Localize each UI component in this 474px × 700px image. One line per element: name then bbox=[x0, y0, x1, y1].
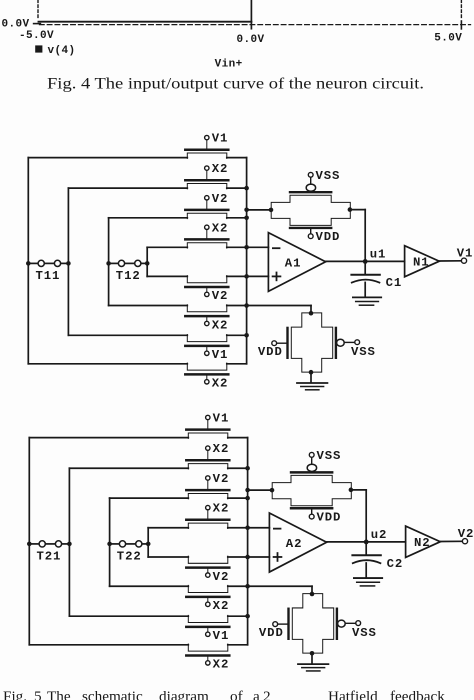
inverter N1 bbox=[405, 246, 440, 277]
junction at lower gate top bbox=[310, 592, 315, 597]
svg-text:X2: X2 bbox=[212, 377, 229, 391]
node u2 bbox=[364, 539, 369, 544]
TG1b left gate bar bbox=[286, 328, 288, 358]
TG2a bottom gate bar bbox=[291, 507, 332, 509]
junction at TG1a right terminal bbox=[348, 207, 353, 212]
transistor M21 (V1) bbox=[186, 415, 229, 438]
junction on rail 4 at T row bbox=[145, 261, 150, 266]
wire: row 4 left lead of neuron 2 bbox=[148, 527, 188, 529]
svg-text:N2: N2 bbox=[414, 536, 431, 550]
svg-text:X2: X2 bbox=[213, 502, 230, 516]
transistor M17 (V1) bbox=[185, 335, 228, 356]
svg-text:X2: X2 bbox=[212, 221, 229, 235]
VDD pin of TG1a bbox=[310, 228, 312, 234]
junction on summing rail bbox=[245, 496, 250, 501]
junction on rail 2 at T row bbox=[66, 261, 71, 266]
svg-text:VDD: VDD bbox=[317, 511, 342, 525]
op-amp minus input mark bbox=[274, 528, 281, 530]
wire: left feedback rail 3 of neuron 2 bbox=[109, 498, 111, 586]
wire: left feedback rail 2 of neuron 2 bbox=[68, 468, 70, 616]
capacitor C2 bbox=[352, 554, 380, 556]
TG1a top gate bar bbox=[290, 191, 331, 193]
svg-text:A1: A1 bbox=[285, 256, 302, 270]
wire: row 6 lead down into lower gate bbox=[311, 586, 313, 594]
svg-text:-5.0V: -5.0V bbox=[19, 30, 54, 42]
graph trace: output low segment bbox=[39, 21, 252, 23]
svg-text:V2: V2 bbox=[212, 289, 229, 303]
VDD pin of TG1b bbox=[277, 342, 288, 344]
junction at lower gate top bbox=[309, 311, 314, 316]
ground below TG2b bbox=[298, 663, 328, 665]
terminal T12 (input pair) bbox=[109, 262, 119, 264]
svg-text:V1: V1 bbox=[212, 132, 229, 146]
wire: row 6 right lead of neuron 2 bbox=[228, 585, 312, 587]
wire: row 5 left lead of neuron 1 bbox=[147, 275, 187, 277]
junction on summing rail bbox=[244, 216, 249, 221]
wire: row 5 left lead of neuron 2 bbox=[148, 556, 188, 558]
svg-text:VDD: VDD bbox=[259, 626, 284, 640]
svg-text:u1: u1 bbox=[370, 248, 387, 262]
wire: capacitor to ground bbox=[365, 563, 367, 577]
junction on summing rail bbox=[245, 584, 250, 589]
wire: row 2 left lead of neuron 1 bbox=[68, 187, 187, 189]
VDD pin of TG2a bbox=[311, 508, 313, 514]
svg-text:N1: N1 bbox=[413, 256, 430, 270]
wire: left feedback rail 3 of neuron 1 bbox=[108, 218, 110, 306]
wire: row 6 left lead of neuron 1 bbox=[109, 305, 188, 307]
transistor M13 (V2) bbox=[185, 196, 228, 219]
wire: row 1 left lead of neuron 2 bbox=[29, 437, 188, 439]
junction on rail 1 at T row bbox=[27, 542, 32, 547]
terminal T11 (input pair) bbox=[28, 262, 38, 264]
graph grid: dashed vertical gridline at +5.0V bbox=[460, 0, 462, 20]
TG1b PMOS bubble bbox=[337, 339, 345, 346]
svg-text:V1: V1 bbox=[457, 246, 474, 260]
wire: node u1 to capacitor C1 bbox=[364, 261, 366, 274]
TG1b right gate bar bbox=[335, 328, 337, 358]
wire: row 5 right lead of neuron 1 bbox=[227, 275, 269, 277]
wire: row 8 right lead of neuron 2 bbox=[228, 644, 248, 646]
junction on summing rail bbox=[244, 245, 249, 250]
svg-text:V1: V1 bbox=[212, 348, 229, 362]
graph grid: dashed vertical gridline at -5.0V bbox=[37, 0, 39, 20]
svg-text:0.0V: 0.0V bbox=[237, 34, 265, 46]
svg-text:VDD: VDD bbox=[258, 345, 283, 359]
svg-text:C2: C2 bbox=[387, 557, 404, 571]
wire: lower gate to ground bbox=[310, 372, 312, 382]
output terminal circle bbox=[461, 258, 466, 263]
op-amp plus input mark bbox=[274, 556, 282, 558]
wire: lower gate to ground bbox=[311, 653, 313, 663]
junction at lower gate bottom bbox=[310, 651, 315, 656]
wire: row 6 left lead of neuron 2 bbox=[110, 585, 189, 587]
ground below TG1b bbox=[297, 382, 327, 384]
junction on summing rail bbox=[244, 186, 249, 191]
svg-text:VSS: VSS bbox=[351, 345, 376, 359]
graph grid: dashed horizontal gridline at 0.0V bbox=[40, 24, 471, 26]
graph x-axis tick at 5.0V bbox=[460, 21, 462, 29]
wire: row 2 right lead of neuron 1 bbox=[227, 187, 247, 189]
junction on summing rail bbox=[244, 208, 249, 213]
svg-text:X2: X2 bbox=[213, 658, 230, 672]
TG2a top gate bar bbox=[291, 471, 332, 473]
wire: left feedback rail 4 of neuron 1 bbox=[146, 247, 148, 276]
wire: row 7 left lead of neuron 2 bbox=[69, 615, 188, 617]
junction on summing rail bbox=[244, 274, 249, 279]
junction on summing rail bbox=[245, 488, 250, 493]
junction on rail 4 at T row bbox=[146, 542, 151, 547]
op-amp A2 bbox=[269, 513, 326, 572]
transistor M14 (X2) bbox=[185, 225, 228, 248]
junction on rail 1 at T row bbox=[26, 261, 31, 266]
wire: row 3 left lead of neuron 2 bbox=[110, 497, 189, 499]
svg-text:0.0V: 0.0V bbox=[2, 19, 30, 31]
legend marker square bbox=[35, 45, 42, 52]
transmission gate TG1b (to ground, VDD/VSS gates) bbox=[291, 313, 332, 372]
junction on summing rail bbox=[245, 555, 250, 560]
svg-text:Fig. 4 The input/output curve: Fig. 4 The input/output curve of the neu… bbox=[47, 75, 424, 92]
TG2b PMOS bubble bbox=[338, 620, 346, 627]
VSS pin of TG2b bbox=[345, 622, 356, 624]
svg-text:T11: T11 bbox=[36, 269, 61, 283]
wire: row 5 right lead of neuron 2 bbox=[228, 556, 270, 558]
junction on summing rail bbox=[245, 525, 250, 530]
wire: row 1 left lead of neuron 1 bbox=[28, 157, 187, 159]
svg-text:v(4): v(4) bbox=[48, 45, 76, 57]
transistor M28 (X2) bbox=[186, 644, 229, 665]
wire: row 8 left lead of neuron 1 bbox=[28, 363, 187, 365]
junction at TG1a left terminal bbox=[269, 208, 274, 213]
wire: row 6 right lead of neuron 1 bbox=[227, 305, 311, 307]
wire: row 7 left lead of neuron 1 bbox=[68, 334, 187, 336]
terminal T22 (input pair) bbox=[110, 543, 120, 545]
junction at TG2a left terminal bbox=[270, 488, 275, 493]
ground below C1 bbox=[353, 296, 381, 298]
wire: row 7 right lead of neuron 1 bbox=[227, 334, 247, 336]
wire: row 8 right lead of neuron 1 bbox=[227, 363, 247, 365]
capacitor C1 bbox=[351, 274, 379, 276]
svg-text:u2: u2 bbox=[371, 528, 388, 542]
transistor M26 (X2) bbox=[186, 585, 229, 606]
wire: row 3 left lead of neuron 1 bbox=[109, 217, 188, 219]
wire: row 4 right lead of neuron 1 bbox=[227, 246, 269, 248]
wire: row 8 left lead of neuron 2 bbox=[29, 644, 188, 646]
junction on rail 3 at T row bbox=[107, 542, 112, 547]
svg-text:V1: V1 bbox=[213, 629, 230, 643]
transistor M23 (V2) bbox=[186, 476, 229, 499]
wire: left feedback rail 4 of neuron 2 bbox=[147, 528, 149, 557]
wire: op-amp output to node u1 to inverter bbox=[326, 260, 405, 262]
wire: summing rail to feedback gate left terminal bbox=[247, 209, 272, 211]
op-amp A1 bbox=[268, 233, 325, 292]
transistor M25 (V2) bbox=[186, 556, 229, 577]
VSS pin of TG2a bbox=[311, 457, 313, 464]
junction on summing rail bbox=[244, 333, 249, 338]
junction at TG2a right terminal bbox=[349, 488, 354, 493]
wire: row 2 left lead of neuron 2 bbox=[69, 467, 188, 469]
svg-text:V2: V2 bbox=[213, 570, 230, 584]
transistor M12 (X2) bbox=[185, 166, 228, 189]
junction at lower gate bottom bbox=[309, 370, 314, 375]
wire: row 3 right lead of neuron 2 bbox=[228, 497, 248, 499]
TG1a PMOS bubble bbox=[306, 184, 315, 191]
VSS pin of TG1a bbox=[310, 177, 312, 184]
wire: capacitor to ground bbox=[364, 282, 366, 296]
wire: op-amp output to node u2 to inverter bbox=[327, 541, 406, 543]
svg-text:T22: T22 bbox=[117, 550, 142, 564]
transistor M11 (V1) bbox=[185, 135, 228, 158]
transistor M16 (X2) bbox=[185, 305, 228, 326]
svg-text:X2: X2 bbox=[212, 162, 229, 176]
ground below C2 bbox=[354, 577, 382, 579]
wire: row 4 right lead of neuron 2 bbox=[228, 527, 270, 529]
graph trace: vertical transition at Vin+=0 / axis bbox=[250, 0, 252, 29]
svg-text:5.0V: 5.0V bbox=[434, 32, 462, 44]
TG2b right gate bar bbox=[336, 609, 338, 639]
svg-text:T21: T21 bbox=[37, 550, 62, 564]
transistor M15 (V2) bbox=[185, 276, 228, 297]
output terminal circle bbox=[462, 539, 467, 544]
TG2a PMOS bubble bbox=[307, 464, 316, 471]
terminal T21 (input pair) bbox=[29, 543, 39, 545]
svg-text:V1: V1 bbox=[213, 411, 230, 425]
wire: row 4 left lead of neuron 1 bbox=[147, 246, 187, 248]
svg-text:V2: V2 bbox=[212, 192, 229, 206]
transmission gate TG2b (to ground, VDD/VSS gates) bbox=[292, 594, 333, 653]
wire: summing rail to feedback gate left terminal bbox=[248, 489, 273, 491]
wire: row 1 right lead of neuron 1 bbox=[227, 157, 247, 159]
node u1 bbox=[363, 259, 368, 264]
wire: inverter output bbox=[439, 260, 461, 262]
transmission gate TG1a (feedback, VSS/VDD gates) bbox=[271, 195, 350, 225]
transistor M24 (X2) bbox=[186, 505, 229, 528]
VDD pin of TG2b bbox=[278, 623, 289, 625]
wire: TG1a right terminal down to node u1 bbox=[350, 209, 365, 211]
wire: right summing rail of neuron 2 bbox=[247, 438, 249, 645]
graph y-axis tick at left bbox=[34, 23, 41, 25]
wire: TG2a right terminal down to node u2 bbox=[351, 489, 366, 491]
wire: left feedback rail 1 of neuron 2 bbox=[28, 438, 30, 645]
svg-text:Vin+: Vin+ bbox=[215, 58, 243, 70]
transmission gate TG2a (feedback, VSS/VDD gates) bbox=[272, 475, 351, 505]
junction on summing rail bbox=[245, 466, 250, 471]
inverter N2 bbox=[406, 526, 441, 557]
svg-text:V2: V2 bbox=[458, 527, 474, 541]
transistor M22 (X2) bbox=[186, 446, 229, 469]
svg-text:T12: T12 bbox=[116, 269, 141, 283]
TG1a bottom gate bar bbox=[290, 227, 331, 229]
op-amp minus input mark bbox=[273, 247, 280, 249]
wire: row 2 right lead of neuron 2 bbox=[228, 467, 248, 469]
wire: row 1 right lead of neuron 2 bbox=[228, 437, 248, 439]
wire: left feedback rail 1 of neuron 1 bbox=[27, 158, 29, 364]
svg-text:VDD: VDD bbox=[316, 230, 341, 244]
wire: row 6 lead down into lower gate bbox=[310, 306, 312, 314]
wire: inverter output bbox=[440, 540, 462, 542]
wire: node u2 to capacitor C2 bbox=[365, 542, 367, 555]
transistor M18 (X2) bbox=[185, 363, 228, 384]
VSS pin of TG1b bbox=[344, 341, 355, 343]
svg-text:C1: C1 bbox=[386, 276, 403, 290]
svg-text:V2: V2 bbox=[213, 472, 230, 486]
svg-text:X2: X2 bbox=[213, 442, 230, 456]
junction on rail 2 at T row bbox=[67, 542, 72, 547]
transistor M27 (V1) bbox=[186, 615, 229, 636]
junction on rail 3 at T row bbox=[106, 261, 111, 266]
svg-text:VSS: VSS bbox=[352, 626, 377, 640]
junction on summing rail bbox=[244, 303, 249, 308]
junction on summing rail bbox=[245, 614, 250, 619]
wire: right summing rail of neuron 1 bbox=[246, 158, 248, 364]
wire: left feedback rail 2 of neuron 1 bbox=[67, 188, 69, 335]
neuron 2 block (translated copy) bbox=[27, 411, 474, 671]
svg-text:A2: A2 bbox=[286, 537, 303, 551]
svg-text:X2: X2 bbox=[213, 599, 230, 613]
wire: row 3 right lead of neuron 1 bbox=[227, 217, 247, 219]
svg-text:VSS: VSS bbox=[317, 449, 342, 463]
svg-text:X2: X2 bbox=[212, 318, 229, 332]
op-amp plus input mark bbox=[273, 275, 281, 277]
svg-text:VSS: VSS bbox=[316, 169, 341, 183]
wire: row 7 right lead of neuron 2 bbox=[228, 615, 248, 617]
TG2b left gate bar bbox=[287, 609, 289, 639]
